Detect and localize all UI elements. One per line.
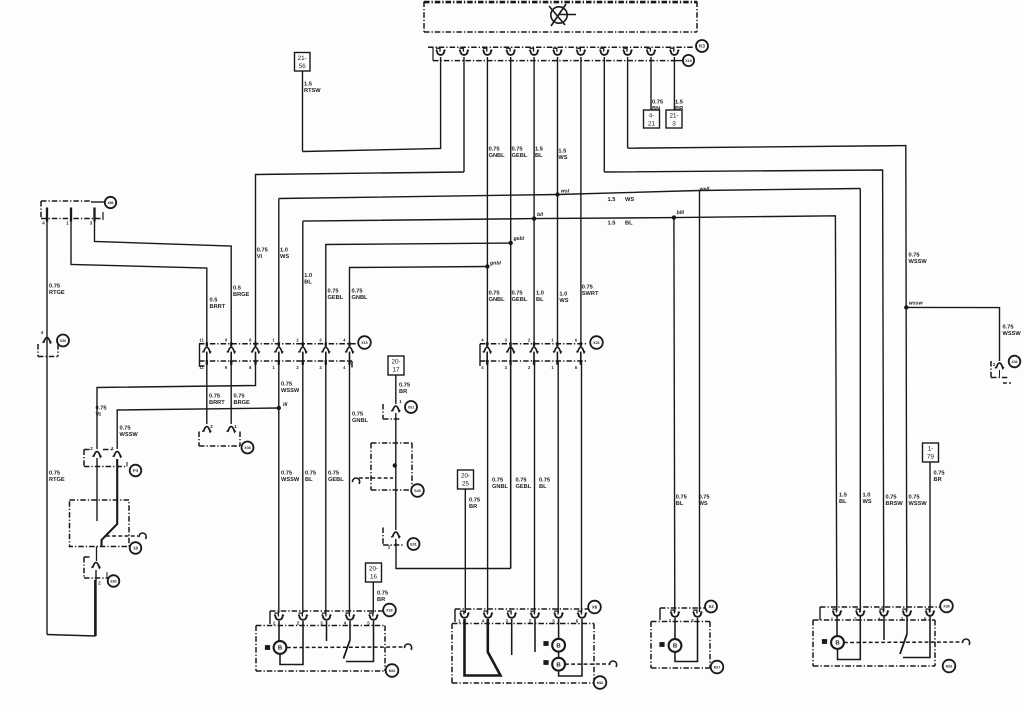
- svg-text:0.75: 0.75: [96, 406, 107, 412]
- svg-text:WS: WS: [699, 501, 708, 507]
- svg-text:16: 16: [370, 573, 378, 580]
- svg-text:0.75: 0.75: [492, 478, 503, 484]
- svg-text:WSSW: WSSW: [120, 432, 139, 438]
- svg-text:F4: F4: [133, 468, 139, 473]
- svg-text:X19: X19: [685, 59, 691, 63]
- svg-text:0.75: 0.75: [539, 478, 550, 484]
- svg-text:GEBL: GEBL: [512, 297, 528, 303]
- svg-text:GNBL: GNBL: [489, 297, 506, 303]
- svg-text:RTSW: RTSW: [304, 88, 321, 94]
- svg-text:X4: X4: [708, 604, 714, 609]
- svg-text:1.0: 1.0: [304, 273, 312, 279]
- svg-text:BRSW: BRSW: [886, 501, 904, 507]
- svg-text:0.75: 0.75: [120, 426, 131, 432]
- svg-text:WSSW: WSSW: [281, 477, 300, 483]
- svg-text:21-: 21-: [669, 113, 678, 120]
- svg-text:0.75: 0.75: [305, 471, 316, 477]
- svg-text:GNBL: GNBL: [352, 418, 369, 424]
- svg-text:BL: BL: [305, 477, 313, 483]
- svg-text:11: 11: [199, 338, 204, 343]
- svg-text:0.75: 0.75: [676, 495, 687, 501]
- svg-text:0.75: 0.75: [328, 289, 339, 295]
- svg-text:0.75: 0.75: [512, 291, 523, 297]
- svg-text:BR: BR: [469, 504, 477, 510]
- svg-text:1.5: 1.5: [608, 221, 616, 227]
- svg-text:BR: BR: [675, 106, 683, 112]
- svg-text:X86: X86: [107, 201, 113, 205]
- svg-text:SWRT: SWRT: [582, 291, 599, 297]
- svg-text:X36: X36: [244, 446, 250, 450]
- svg-text:WS: WS: [559, 298, 568, 304]
- svg-text:1.5: 1.5: [675, 100, 683, 106]
- svg-text:WSSW: WSSW: [909, 501, 928, 507]
- svg-text:0.75: 0.75: [582, 285, 593, 291]
- svg-text:0.75: 0.75: [281, 471, 292, 477]
- svg-text:1.0: 1.0: [863, 493, 871, 499]
- svg-text:gebl: gebl: [513, 236, 525, 242]
- svg-text:III: III: [283, 402, 288, 408]
- svg-text:GNBL: GNBL: [489, 153, 506, 159]
- svg-text:M18: M18: [946, 664, 953, 668]
- svg-text:GEBL: GEBL: [328, 477, 344, 483]
- svg-text:X32: X32: [386, 608, 392, 612]
- svg-text:0.75: 0.75: [909, 495, 920, 501]
- svg-text:RTGE: RTGE: [49, 290, 65, 296]
- svg-text:WSSW: WSSW: [1003, 331, 1022, 337]
- svg-text:0.75: 0.75: [352, 412, 363, 418]
- svg-text:BL: BL: [535, 153, 543, 159]
- svg-text:21: 21: [648, 120, 656, 127]
- svg-text:B: B: [556, 642, 561, 649]
- svg-text:WS: WS: [280, 254, 289, 260]
- svg-text:1.5: 1.5: [839, 493, 847, 499]
- svg-text:VI: VI: [96, 412, 102, 418]
- svg-text:BR: BR: [934, 477, 942, 483]
- svg-text:0.75: 0.75: [328, 471, 339, 477]
- svg-text:3: 3: [672, 120, 676, 127]
- svg-text:0.75: 0.75: [516, 478, 527, 484]
- svg-text:M17: M17: [714, 665, 721, 669]
- svg-text:18: 18: [133, 546, 138, 551]
- svg-text:21-: 21-: [298, 55, 307, 62]
- svg-text:1-: 1-: [928, 446, 934, 453]
- svg-text:11: 11: [199, 365, 204, 370]
- svg-text:0.75: 0.75: [49, 284, 60, 290]
- svg-text:RTGE: RTGE: [49, 477, 65, 483]
- svg-text:17: 17: [392, 366, 400, 373]
- svg-text:WS: WS: [625, 197, 634, 203]
- svg-text:20-: 20-: [391, 359, 400, 366]
- svg-text:GEBL: GEBL: [328, 295, 344, 301]
- svg-text:M15: M15: [389, 669, 396, 673]
- svg-text:25: 25: [462, 480, 470, 487]
- svg-text:BL: BL: [539, 484, 547, 490]
- svg-text:0.5: 0.5: [210, 298, 218, 304]
- svg-text:0.75: 0.75: [209, 394, 220, 400]
- svg-text:B: B: [673, 643, 678, 650]
- svg-text:wsI: wsI: [561, 188, 570, 194]
- svg-text:BL: BL: [625, 221, 633, 227]
- svg-text:X21: X21: [593, 341, 599, 345]
- svg-text:blII: blII: [677, 210, 685, 216]
- svg-text:0.75: 0.75: [399, 383, 410, 389]
- svg-text:BRRT: BRRT: [209, 400, 225, 406]
- svg-text:X8: X8: [592, 605, 598, 610]
- svg-text:GNBL: GNBL: [492, 484, 509, 490]
- svg-text:WS: WS: [558, 155, 567, 161]
- svg-text:B: B: [556, 661, 561, 668]
- svg-text:20-: 20-: [369, 566, 378, 573]
- svg-text:E50: E50: [110, 579, 116, 583]
- svg-text:0.75: 0.75: [234, 394, 245, 400]
- svg-text:79: 79: [927, 453, 935, 460]
- svg-text:0.75: 0.75: [886, 495, 897, 501]
- svg-text:0.75: 0.75: [909, 253, 920, 259]
- svg-text:0.75: 0.75: [352, 289, 363, 295]
- svg-text:gnbl: gnbl: [489, 261, 502, 267]
- svg-text:0.75: 0.75: [257, 248, 268, 254]
- svg-text:GEBL: GEBL: [516, 484, 532, 490]
- svg-text:0.75: 0.75: [281, 382, 292, 388]
- svg-text:WSSW: WSSW: [909, 259, 928, 265]
- svg-text:0.75: 0.75: [49, 471, 60, 477]
- svg-text:E51: E51: [410, 542, 416, 546]
- svg-text:X51: X51: [408, 405, 414, 409]
- svg-text:GNBL: GNBL: [352, 295, 369, 301]
- svg-text:1.0: 1.0: [280, 248, 288, 254]
- svg-text:WSSW: WSSW: [281, 388, 300, 394]
- svg-text:X34: X34: [1011, 360, 1017, 364]
- svg-text:BL: BL: [839, 499, 847, 505]
- svg-text:0.75: 0.75: [652, 100, 663, 106]
- svg-text:BL: BL: [304, 279, 312, 285]
- svg-text:BL: BL: [676, 501, 684, 507]
- svg-text:BL: BL: [536, 297, 544, 303]
- svg-text:B: B: [835, 640, 840, 647]
- svg-text:S40: S40: [414, 489, 420, 493]
- svg-text:X35: X35: [943, 604, 949, 608]
- svg-text:BN: BN: [652, 106, 660, 112]
- svg-text:WS: WS: [863, 499, 872, 505]
- svg-text:0.75: 0.75: [489, 291, 500, 297]
- svg-text:BR: BR: [377, 597, 385, 603]
- svg-text:1.5: 1.5: [558, 149, 566, 155]
- svg-text:X20: X20: [60, 339, 66, 343]
- svg-text:M16: M16: [597, 681, 604, 685]
- svg-text:B: B: [278, 645, 283, 652]
- svg-text:1.0: 1.0: [536, 291, 544, 297]
- svg-text:BR: BR: [399, 389, 407, 395]
- svg-text:1.5: 1.5: [535, 147, 543, 153]
- svg-text:BRGE: BRGE: [233, 292, 250, 298]
- svg-text:K3: K3: [699, 44, 705, 49]
- svg-text:1.0: 1.0: [559, 292, 567, 298]
- svg-text:1.5: 1.5: [608, 197, 616, 203]
- svg-text:4-: 4-: [649, 113, 655, 120]
- svg-text:0.75: 0.75: [1003, 325, 1014, 331]
- svg-text:0.75: 0.75: [469, 498, 480, 504]
- svg-text:BRGE: BRGE: [234, 400, 251, 406]
- svg-text:20-: 20-: [461, 473, 470, 480]
- svg-text:GEBL: GEBL: [512, 153, 528, 159]
- svg-text:0.75: 0.75: [699, 495, 710, 501]
- svg-text:0.75: 0.75: [934, 471, 945, 477]
- svg-text:wsII: wsII: [700, 187, 710, 193]
- svg-text:BRRT: BRRT: [210, 304, 226, 310]
- svg-text:wssw: wssw: [909, 301, 924, 307]
- svg-text:VI: VI: [257, 254, 263, 260]
- svg-text:1.5: 1.5: [304, 82, 312, 88]
- svg-text:0.75: 0.75: [377, 591, 388, 597]
- svg-text:0.75: 0.75: [512, 147, 523, 153]
- svg-text:56: 56: [299, 63, 307, 70]
- svg-text:X15: X15: [361, 341, 367, 345]
- svg-text:blI: blI: [537, 212, 544, 218]
- svg-text:0.75: 0.75: [489, 147, 500, 153]
- svg-text:0.5: 0.5: [233, 286, 241, 292]
